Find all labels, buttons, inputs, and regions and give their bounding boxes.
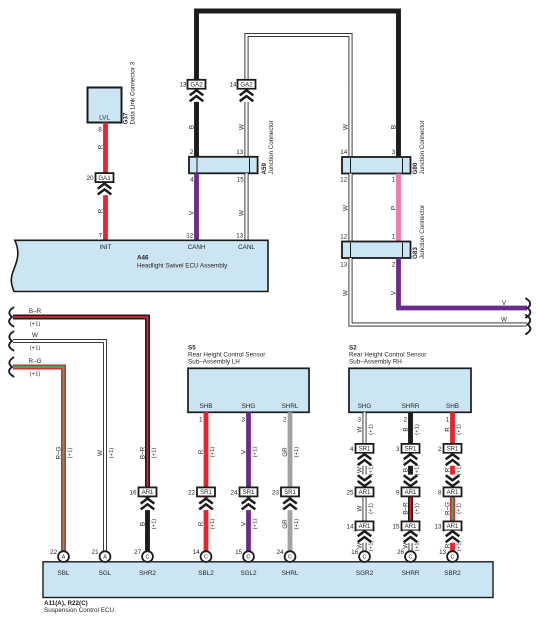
wire V (S5 pin 3 to SR1 24) [246,412,251,487]
svg-text:1: 1 [392,177,396,184]
svg-text:B: B [390,125,397,129]
connector SR1 pin 4 [356,444,374,453]
wire W (G83 pin 13 to right edge) [351,258,528,325]
svg-text:(+1): (+1) [415,465,421,476]
svg-text:AR1: AR1 [142,489,154,496]
wire R (SR1 22 to ECU) [204,497,209,553]
svg-text:S2: S2 [349,344,357,351]
svg-text:Data Link Connector 3: Data Link Connector 3 [130,61,137,124]
svg-text:1: 1 [445,416,449,423]
svg-text:B–R: B–R [29,308,42,315]
svg-text:2: 2 [190,149,194,156]
ECU pin 15 SGL2 [243,551,254,562]
svg-text:G80: G80 [412,162,419,174]
wire B-R (left edge to connector AR1 16) [13,317,148,487]
svg-text:SR1: SR1 [243,489,255,496]
svg-text:14: 14 [340,149,348,156]
svg-text:W: W [356,543,363,549]
svg-text:15: 15 [392,523,400,530]
connector SR1 pin 3 [402,444,420,453]
svg-text:SGL2: SGL2 [240,570,257,577]
svg-text:C: C [146,555,150,561]
wire R (S5 pin 1 to SR1 22) [204,412,209,487]
svg-text:13: 13 [179,82,187,89]
svg-text:(+1): (+1) [68,448,74,459]
svg-text:13: 13 [340,261,348,268]
svg-text:(+1): (+1) [294,519,300,530]
svg-text:B: B [139,522,146,526]
svg-text:A11(A), R22(C): A11(A), R22(C) [44,600,88,607]
wire R (S2 pin 1 to SR1 2) [450,412,455,444]
svg-text:AR1: AR1 [405,489,417,496]
wire R (AR1 13 to ECU) [450,531,455,553]
svg-text:3: 3 [357,416,361,423]
svg-text:R–G: R–G [29,358,42,365]
svg-text:Junction Connector: Junction Connector [419,120,426,174]
connector G37 LVL box [88,88,122,123]
wire W (AR1 14 to ECU) [363,531,367,553]
svg-text:R: R [97,208,104,213]
svg-text:W: W [501,317,507,324]
svg-text:A59: A59 [261,162,268,174]
ECU A46 Headlight Swivel ECU Assembly [11,240,268,291]
wire W (S2 pin 3 to SR1 4) [363,412,367,444]
svg-text:2: 2 [403,416,407,423]
wire W (A59 pin 15 to A46 pin 13 CANL) [245,173,249,240]
svg-text:(+1): (+1) [210,447,216,458]
svg-text:B: B [188,125,195,129]
svg-text:W: W [97,450,104,456]
ECU pin 21 SGL [100,551,111,562]
connector GA2 pin 14 [238,80,256,89]
svg-text:Rear Height Control Sensor: Rear Height Control Sensor [349,352,426,359]
svg-text:Sub–Assembly LH: Sub–Assembly LH [188,359,240,366]
svg-text:SR1: SR1 [284,489,296,496]
svg-text:C: C [451,555,455,561]
svg-text:(+1): (+1) [457,424,463,435]
svg-text:G83: G83 [412,247,419,259]
connector AR1 pin 14 [356,521,374,530]
svg-text:9: 9 [396,489,400,496]
svg-text:SR1: SR1 [447,446,459,453]
svg-text:Junction Connector: Junction Connector [268,120,275,174]
svg-text:CANH: CANH [188,244,206,251]
svg-text:CANL: CANL [238,244,255,251]
svg-text:LVL: LVL [99,115,110,122]
svg-text:C: C [409,555,413,561]
svg-text:R–G: R–G [55,446,62,459]
svg-text:(+1): (+1) [253,447,259,458]
svg-text:AR1: AR1 [447,489,459,496]
wire W (SR1 4 to AR1 25) [363,453,367,487]
svg-text:22: 22 [50,549,58,556]
svg-text:(+1): (+1) [457,503,463,514]
wire W (AR1 25 to AR1 14) [363,497,367,522]
svg-text:13: 13 [236,233,244,240]
connector AR1 pin 8 [444,487,462,496]
wire W (left edge to ECU pin 21 SGL) [13,341,105,552]
wire R (SR1 2 to AR1 8) [450,453,455,487]
svg-text:4: 4 [190,177,194,184]
svg-text:Rear Height Control Sensor: Rear Height Control Sensor [188,352,265,359]
junction connector G80 [342,157,411,174]
svg-text:R: R [198,521,205,526]
connector SR1 pin 24 [240,487,258,496]
svg-text:R: R [198,449,205,454]
svg-text:4: 4 [350,446,354,453]
svg-text:R: R [444,543,451,548]
svg-text:C: C [363,555,367,561]
svg-text:Headlight Swivel ECU Assembly: Headlight Swivel ECU Assembly [137,263,228,270]
svg-text:(+1): (+1) [415,540,421,551]
svg-text:W: W [342,124,349,130]
svg-text:SHRR: SHRR [402,403,420,410]
svg-text:1: 1 [392,234,396,241]
svg-text:SHB: SHB [200,403,213,410]
svg-text:14: 14 [346,523,354,530]
svg-text:14: 14 [193,549,201,556]
svg-text:AR1: AR1 [447,523,459,530]
wire W (GA2 to A59 pin 13) [245,89,249,157]
svg-text:SR1: SR1 [405,446,417,453]
svg-text:8: 8 [98,127,102,134]
svg-text:(+1): (+1) [369,503,375,514]
svg-text:22: 22 [188,489,196,496]
svg-text:24: 24 [230,489,238,496]
svg-text:W: W [342,290,349,296]
svg-text:AR1: AR1 [359,489,371,496]
svg-text:W: W [356,426,363,432]
svg-text:W: W [356,505,363,511]
svg-text:W: W [356,467,363,473]
ECU pin 24 SHRL [285,551,296,562]
wire B (AR1 16 to ECU pin 27 SHR2) [145,497,150,553]
svg-text:C: C [288,555,292,561]
ECU pin 26 SHRR [405,551,416,562]
connector SR1 pin 23 [281,487,299,496]
svg-text:W: W [402,543,409,549]
svg-text:SHRL: SHRL [282,403,299,410]
svg-text:2: 2 [438,446,442,453]
svg-text:12: 12 [186,233,194,240]
wire B (S2 pin 2 to SR1 3) [408,412,413,444]
svg-text:W: W [342,205,349,211]
svg-text:R: R [444,467,451,472]
svg-text:21: 21 [92,549,100,556]
wire V (SR1 24 to ECU) [246,497,251,553]
ECU pin 22 SBL [58,551,69,562]
svg-text:3: 3 [392,149,396,156]
svg-text:S5: S5 [188,344,196,351]
wire W (G80 pin 12 to G83 pin 12) [349,174,353,242]
connector AR1 pin 25 [356,487,374,496]
svg-text:SHRL: SHRL [282,570,299,577]
connector AR1 pin 16 [139,487,157,496]
svg-text:SGL: SGL [99,570,112,577]
connector AR1 pin 15 [402,521,420,530]
svg-text:B–R: B–R [402,502,409,515]
wire B (13 GA2 up over top to G80 pin 3) [197,11,399,157]
svg-text:SBL: SBL [58,570,70,577]
svg-text:SHR2: SHR2 [139,570,156,577]
svg-text:12: 12 [340,234,348,241]
svg-text:(+1): (+1) [415,424,421,435]
svg-text:(+1): (+1) [30,322,41,328]
svg-text:SR1: SR1 [359,446,371,453]
svg-text:R–G: R–G [444,502,451,515]
svg-text:W: W [238,124,245,130]
break symbol W wire [526,315,530,334]
svg-text:1: 1 [199,416,203,423]
break symbol W wire [9,332,13,351]
wire P (G80 pin 1 to G83 pin 1) [396,174,401,242]
wire V (A59 pin 4 to A46 pin 12 CANH) [194,173,199,240]
svg-text:2: 2 [392,261,396,268]
svg-text:2: 2 [283,416,287,423]
svg-text:13: 13 [434,523,442,530]
wire R (LVL pin 8 to GA1) [103,123,108,174]
svg-text:Suspension Control ECU: Suspension Control ECU [44,607,114,614]
svg-text:W: W [32,332,38,339]
svg-text:SHB: SHB [446,403,459,410]
svg-text:Sub–Assembly RH: Sub–Assembly RH [349,359,402,366]
svg-text:25: 25 [346,489,354,496]
svg-text:(+1): (+1) [152,519,158,530]
ECU A11 Suspension Control ECU [43,562,493,598]
svg-text:(+1): (+1) [369,540,375,551]
svg-text:GA2: GA2 [240,82,253,89]
svg-text:W: W [238,210,245,216]
svg-text:C: C [247,555,251,561]
svg-text:R: R [97,144,104,149]
svg-text:23: 23 [272,489,280,496]
wire GR (S5 pin 2 to SR1 23) [288,412,293,487]
wire R–G (AR1 8 to AR1 13) [450,497,455,522]
svg-text:16: 16 [129,489,137,496]
svg-text:7: 7 [99,233,103,240]
ECU pin 14 SBL2 [201,551,212,562]
svg-text:R: R [444,427,451,432]
junction connector A59 [189,157,258,174]
svg-text:SBL2: SBL2 [198,570,214,577]
svg-text:Junction Connector: Junction Connector [419,205,426,259]
svg-text:15: 15 [237,177,245,184]
svg-text:AR1: AR1 [405,523,417,530]
svg-text:(+1): (+1) [30,346,41,352]
svg-text:GR: GR [282,519,289,529]
svg-text:AR1: AR1 [359,523,371,530]
svg-text:20: 20 [86,175,94,182]
svg-text:15: 15 [235,549,243,556]
svg-text:3: 3 [241,416,245,423]
svg-text:(+1): (+1) [253,519,259,530]
wire GR (SR1 23 to ECU) [288,497,293,553]
junction connector G83 [342,242,411,259]
wire R (GA1 to A46 pin 7 INIT) [103,182,108,240]
svg-text:GA2: GA2 [190,82,203,89]
svg-text:SHG: SHG [358,403,372,410]
svg-text:14: 14 [229,82,237,89]
svg-text:G37: G37 [123,112,130,124]
connector AR1 pin 9 [402,487,420,496]
svg-text:SHRR: SHRR [402,570,420,577]
svg-text:A: A [62,555,66,561]
break symbol R-G wire [9,358,13,377]
connector AR1 pin 13 [444,521,462,530]
svg-text:27: 27 [134,549,142,556]
wire B (SR1 3 to AR1 9) [408,453,413,487]
wire W (AR1 15 to ECU) [409,531,413,553]
svg-text:GA1: GA1 [98,175,111,182]
svg-text:B: B [402,468,409,472]
svg-text:SR1: SR1 [200,489,212,496]
break symbol V wire [526,299,530,318]
svg-text:(+1): (+1) [109,448,115,459]
svg-text:A46: A46 [137,255,149,262]
svg-text:(+1): (+1) [210,519,216,530]
connector GA2 pin 13 [188,80,206,89]
svg-text:B–R: B–R [139,446,146,459]
svg-text:26: 26 [397,549,405,556]
svg-text:(+1): (+1) [369,424,375,435]
connector GA1 pin 20 [96,173,114,182]
svg-text:16: 16 [351,549,359,556]
svg-text:(+1): (+1) [294,447,300,458]
break symbol B-R wire [9,308,13,327]
svg-text:13: 13 [236,149,244,156]
wire W (14 GA2 up over top to G80 pin 14) [247,35,351,157]
svg-text:B: B [402,427,409,431]
svg-text:12: 12 [340,177,348,184]
svg-text:(+1): (+1) [152,448,158,459]
svg-text:P: P [390,206,397,210]
svg-text:24: 24 [277,549,285,556]
wire B (GA2 to A59 pin 2) [194,89,199,157]
wire R-G (left edge to ECU pin 22 SBL) [13,367,64,552]
svg-text:INIT: INIT [100,244,112,251]
svg-text:(+1): (+1) [369,465,375,476]
svg-text:(+1): (+1) [415,503,421,514]
svg-text:SBR2: SBR2 [444,570,461,577]
ECU pin 13 SBR2 [447,551,458,562]
svg-text:A: A [103,555,107,561]
svg-text:SHG: SHG [242,403,256,410]
connector SR1 pin 2 [444,444,462,453]
wire V (G83 pin 2 to right edge) [399,258,528,308]
svg-text:(+1): (+1) [457,540,463,551]
ECU pin 16 SGR2 [359,551,370,562]
svg-text:C: C [204,555,208,561]
svg-text:(+1): (+1) [30,372,41,378]
svg-text:GR: GR [282,447,289,457]
connector SR1 pin 22 [197,487,215,496]
svg-text:(+1): (+1) [457,465,463,476]
svg-text:8: 8 [438,489,442,496]
ECU pin 27 SHR2 [142,551,153,562]
svg-text:SGR2: SGR2 [356,570,374,577]
svg-text:13: 13 [439,549,447,556]
wire B–R (AR1 9 to AR1 15) [408,497,413,522]
svg-text:3: 3 [396,446,400,453]
